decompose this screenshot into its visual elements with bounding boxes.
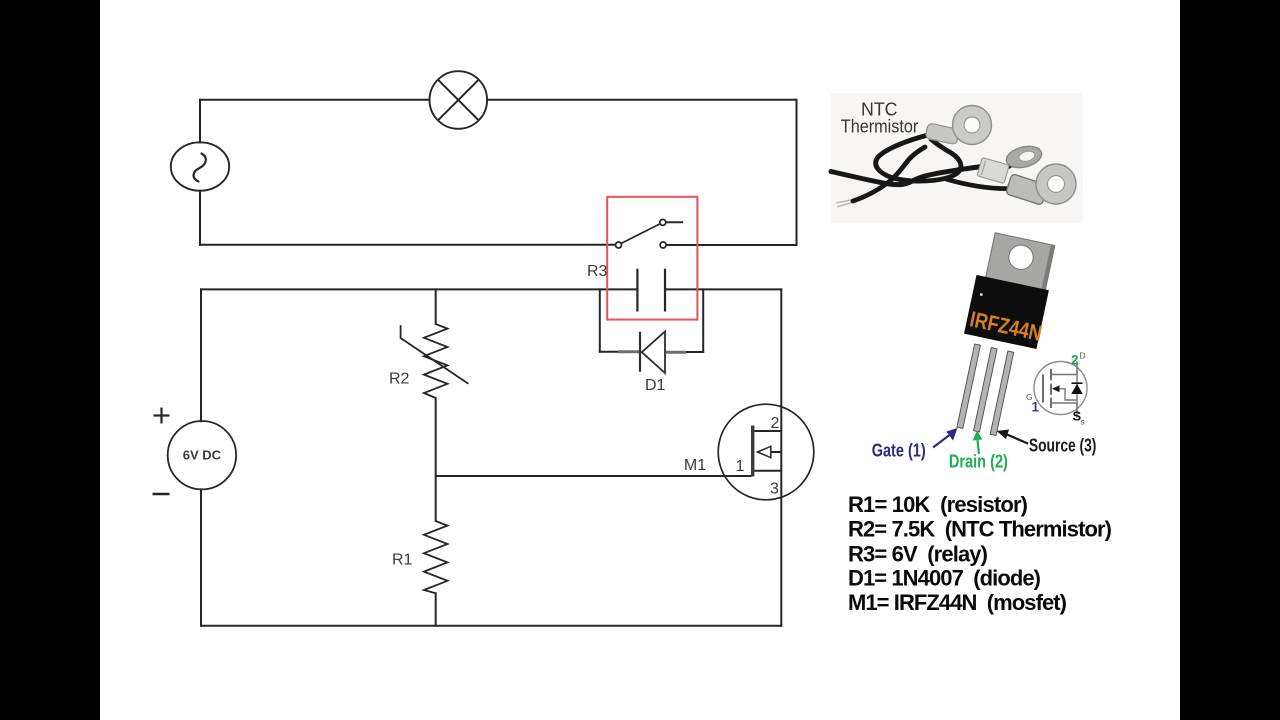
ring terminal bottom right	[1006, 164, 1076, 205]
ring terminal top	[925, 106, 991, 145]
plus sign	[154, 408, 170, 424]
substrate arrow	[770, 451, 781, 453]
package body	[964, 275, 1049, 349]
drain leg	[974, 348, 998, 432]
ring terminal middle	[1004, 143, 1044, 171]
relay NC stub	[666, 244, 683, 246]
source leg	[990, 351, 1014, 435]
svg-text:s: s	[1081, 417, 1085, 427]
svg-text:D: D	[1080, 351, 1086, 361]
wire lower loop left vertical lower	[200, 489, 202, 625]
drain connection	[754, 430, 781, 432]
cable from left edge to sleeve and middle lug	[831, 167, 981, 185]
resistor R1	[424, 521, 448, 593]
wire R2-R1 middle vertical	[435, 398, 437, 521]
wire relay to right vertical	[683, 244, 796, 246]
relay switch blade	[621, 224, 660, 244]
wire top loop bottom segment	[200, 244, 616, 246]
svg-text:Thermistor: Thermistor	[841, 117, 919, 137]
mosfet M1	[718, 404, 814, 500]
relay switch NC contact	[660, 242, 666, 248]
svg-text:R3: R3	[587, 263, 608, 280]
thermistor R2	[401, 324, 469, 398]
relay switch common contact	[616, 242, 622, 248]
crimp sleeve	[977, 158, 1009, 184]
drain arrow	[977, 438, 979, 454]
svg-text:3: 3	[770, 481, 779, 498]
svg-text:1: 1	[1032, 400, 1040, 415]
wire lower loop right vertical	[780, 289, 782, 625]
lamp L1	[430, 71, 488, 129]
svg-text:2: 2	[1071, 353, 1079, 368]
svg-text:M1= IRFZ44N (mosfet): M1= IRFZ44N (mosfet)	[848, 590, 1067, 615]
wire top loop right vertical	[796, 100, 798, 245]
DC source 6V	[153, 408, 237, 495]
svg-text:R2= 7.5K (NTC Thermistor): R2= 7.5K (NTC Thermistor)	[848, 516, 1112, 541]
relay R3 red box	[607, 197, 697, 320]
wire top loop left vertical upper	[199, 100, 201, 143]
minus sign	[153, 493, 170, 496]
wire lower loop top-right segment	[665, 288, 781, 290]
IRFZ44N package	[945, 231, 1061, 440]
svg-text:R1: R1	[392, 552, 413, 569]
mosfet symbol small	[1026, 351, 1087, 427]
source arrow	[1005, 434, 1028, 444]
wire R2 top lead	[435, 289, 437, 324]
wire gate (node between divider and M1)	[436, 475, 751, 477]
AC source V1	[171, 142, 229, 190]
cable loop	[876, 135, 961, 181]
relay switch NO contact	[660, 219, 666, 225]
cable from wire tips into loop	[853, 147, 925, 201]
svg-text:M1: M1	[684, 457, 706, 474]
relay NO stub	[666, 221, 683, 223]
wire lower loop top-left segment	[201, 288, 637, 290]
svg-text:Drain (2): Drain (2)	[949, 451, 1008, 471]
wire R1 bottom lead	[435, 593, 437, 626]
svg-text:R3= 6V (relay): R3= 6V (relay)	[848, 542, 988, 567]
NTC thermistor photo	[831, 93, 1083, 223]
wire diode loop bottom-left	[600, 351, 622, 353]
svg-text:Source (3): Source (3)	[1029, 435, 1097, 455]
gate bar	[751, 426, 754, 477]
wire diode loop left vertical	[599, 289, 601, 351]
source connection	[754, 470, 781, 472]
cable loop to right lug	[946, 179, 1014, 189]
svg-text:1: 1	[736, 458, 745, 475]
relay coil right plate	[664, 269, 666, 312]
svg-text:R2: R2	[389, 371, 410, 388]
wire top loop top-left segment	[200, 99, 430, 101]
svg-text:R1= 10K (resistor): R1= 10K (resistor)	[848, 492, 1028, 517]
wire lower loop left vertical upper	[200, 289, 202, 421]
gate arrow	[933, 434, 952, 448]
wire diode loop bottom-right	[684, 351, 703, 353]
wire top loop left vertical lower	[199, 191, 201, 245]
wire lower loop bottom segment	[201, 625, 781, 627]
parts list	[848, 492, 1112, 615]
svg-text:D1= 1N4007 (diode): D1= 1N4007 (diode)	[848, 565, 1041, 590]
relay coil left plate	[636, 269, 638, 312]
diode D1	[618, 331, 686, 373]
svg-text:Gate (1): Gate (1)	[872, 441, 926, 461]
wire top loop top-right segment	[487, 99, 796, 101]
svg-text:D1: D1	[645, 377, 666, 394]
gate leg	[957, 344, 981, 428]
tab hole	[1006, 243, 1035, 272]
wire diode loop right vertical	[702, 289, 704, 351]
metal tab	[984, 233, 1055, 299]
svg-text:G: G	[1026, 392, 1033, 402]
stripped wire tips	[836, 200, 853, 204]
svg-text:2: 2	[771, 415, 780, 432]
svg-text:6V DC: 6V DC	[183, 448, 222, 463]
